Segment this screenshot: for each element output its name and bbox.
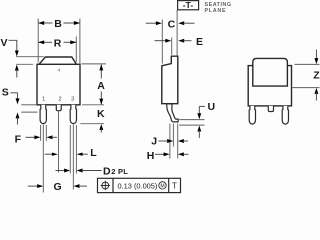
centerline lead1: [42, 125, 44, 193]
svg-text:L: L: [90, 147, 97, 159]
svg-text:R: R: [54, 37, 62, 49]
svg-text:4: 4: [58, 68, 61, 73]
back view tab: [253, 58, 288, 86]
datum T box: [178, 0, 199, 10]
package cap (chamfered top): [39, 57, 76, 64]
svg-text:2: 2: [58, 97, 61, 103]
position symbol: [102, 182, 109, 189]
side view body: [162, 56, 178, 103]
seating plane datum line: [176, 10, 178, 56]
L dimension: [45, 147, 98, 159]
svg-text:B: B: [54, 18, 62, 30]
H dimension: [147, 150, 189, 162]
svg-text:S: S: [2, 86, 9, 98]
svg-text:T: T: [172, 181, 177, 190]
back lead left: [249, 106, 255, 124]
M circle modifier: [159, 182, 166, 189]
extension line lead3 left edge: [69, 125, 71, 174]
A dimension: [82, 64, 107, 105]
extension line lead3 right edge: [75, 125, 77, 174]
centerline lead3: [72, 125, 74, 190]
Z dimension: [292, 50, 320, 101]
svg-text:V: V: [1, 37, 8, 49]
S dimension: [2, 86, 38, 124]
svg-text:A: A: [97, 80, 105, 92]
lead 3 front: [70, 105, 76, 124]
svg-text:M: M: [160, 183, 164, 189]
back lead center stub: [268, 106, 273, 112]
feature control frame: [98, 178, 181, 192]
D dimension: [56, 165, 129, 177]
back view body: [248, 66, 291, 106]
G dimension: [28, 181, 87, 193]
svg-text:J: J: [151, 135, 157, 147]
package body front view: [37, 64, 80, 105]
svg-text:3: 3: [71, 97, 74, 103]
svg-text:1: 1: [42, 97, 45, 103]
back lead right: [282, 106, 288, 124]
lead 2 front (center stub): [56, 105, 61, 111]
R dimension: [38, 37, 76, 63]
svg-text:E: E: [196, 36, 203, 48]
svg-text:-T-: -T-: [183, 0, 194, 10]
F dimension: [15, 134, 57, 146]
svg-text:K: K: [97, 108, 105, 120]
svg-text:Z: Z: [313, 69, 320, 81]
centerline lead2: [58, 111, 60, 173]
K dimension: [80, 105, 105, 133]
U dimension: [179, 101, 215, 138]
svg-text:C: C: [168, 18, 176, 30]
side view lead (bent, with foot): [167, 104, 178, 122]
E dimension: [155, 36, 204, 55]
svg-text:U: U: [208, 101, 216, 113]
svg-text:2 PL: 2 PL: [111, 167, 128, 176]
svg-text:F: F: [15, 134, 22, 146]
svg-text:G: G: [54, 181, 62, 193]
svg-text:H: H: [147, 150, 155, 162]
C dimension: [146, 18, 195, 63]
lead 1 front: [40, 105, 46, 124]
svg-text:D: D: [103, 165, 111, 177]
svg-text:0.13 (0.005): 0.13 (0.005): [118, 181, 158, 190]
extension line lead1 left edge: [40, 125, 42, 141]
svg-text:PLANE: PLANE: [205, 8, 227, 14]
extension line lead1 right edge: [45, 125, 47, 141]
seating plane note: [205, 2, 232, 14]
J dimension: [151, 124, 188, 159]
B dimension: [38, 18, 80, 64]
V dimension: [1, 37, 44, 78]
